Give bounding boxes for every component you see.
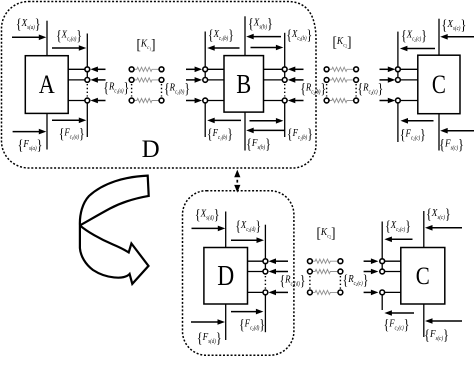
region D dashed boundary (top) xyxy=(2,2,317,169)
wire A coupling line dotted continuation xyxy=(86,84,88,97)
svg-text:A: A xyxy=(39,70,55,99)
spring K_c2 top row 1 xyxy=(329,67,355,71)
arrow reaction R_c2(c) row 2 into C left node xyxy=(380,77,396,83)
arrow reaction R_c1(a) row 3 into A node xyxy=(90,98,105,104)
wire B right coupling line lower xyxy=(284,99,286,138)
curved swoosh arrow (condensation) xyxy=(80,176,149,284)
wire D bottom s-line xyxy=(225,304,227,340)
arrow {F_s(c)} into bottom C bottom boundary line xyxy=(425,318,462,324)
wire stubs D right to coupling nodes xyxy=(248,261,265,292)
arrow {F_c2(b)} into B right coupling line bottom xyxy=(250,118,284,124)
wire bottom C top s-line xyxy=(423,211,425,248)
wire B left coupling line lower xyxy=(204,99,206,138)
arrow {X_s(a)} into A top boundary line xyxy=(12,35,46,41)
arrow {F_c2(d)} into D coupling line bottom xyxy=(231,309,263,315)
wire C top s-line xyxy=(438,19,440,56)
wire C left coupling line upper xyxy=(397,32,399,82)
svg-text:D: D xyxy=(217,261,234,292)
coupling nodes on B right boundary xyxy=(282,67,287,103)
wire stubs B right to coupling nodes xyxy=(264,69,284,100)
wire A coupling line lower xyxy=(86,99,88,138)
wire B right coupling line dotted continuation xyxy=(284,84,286,97)
wire B left coupling line upper xyxy=(204,32,206,83)
spring K_c1 left end nodes xyxy=(129,67,134,103)
arrow {F_c2(c)} into C coupling line bottom xyxy=(401,118,434,124)
arrow {X_s(c)} into C top boundary line xyxy=(440,34,474,40)
dots spring K_c2 bottom left column xyxy=(309,276,311,289)
arrow reaction R_c2(d) row 3 into D node xyxy=(269,290,289,296)
spring K_c2 right end nodes (top) xyxy=(354,67,359,103)
arrow reaction R_c2(c) row 3 into C left node xyxy=(380,98,396,104)
arrow {F_c1(b)} into B left coupling line bottom xyxy=(207,118,241,124)
arrow reaction R_c2(b) row 2 into B right node xyxy=(288,77,304,83)
arrow {X_c2(c)} into bottom C coupling line xyxy=(384,237,412,243)
wire B right coupling line upper xyxy=(284,33,286,82)
wire A top s-line xyxy=(46,21,48,56)
arrow reaction R_c1(b) row 2 into B left node xyxy=(186,77,202,83)
arrow reaction R_c2(c) row 1 into C left node xyxy=(380,67,396,73)
wire stubs A right to coupling nodes xyxy=(68,69,86,100)
double-headed dashed arrow linking regions xyxy=(234,170,240,193)
arrow {F_c2(c)} into bottom C coupling line bottom xyxy=(384,310,414,316)
wire D coupling line lower xyxy=(264,291,266,333)
arrow {F_s(c)} into C bottom boundary line xyxy=(440,128,474,134)
svg-text:D: D xyxy=(142,136,160,163)
arrow reaction R_c1(b) row 3 into B left node xyxy=(186,98,202,104)
spring K_c1 row 3 xyxy=(134,98,160,102)
arrow {X_s(b)} into B top boundary line xyxy=(246,34,281,40)
wire stubs bottom C left to coupling nodes xyxy=(384,261,401,292)
dots spring K_c1 right column xyxy=(161,84,163,97)
wire C bottom s-line xyxy=(438,114,440,151)
spring K_c2 bottom row 2 xyxy=(312,269,339,273)
arrow {F_s(d)} into D bottom boundary line xyxy=(191,319,225,325)
wire stubs C left to coupling nodes xyxy=(399,69,418,100)
arrow reaction R_c2(b) row 1 into B right node xyxy=(288,67,304,73)
coupling nodes on B left boundary xyxy=(203,67,208,103)
arrow reaction R_c2(c) row 3 into bottom C node xyxy=(364,290,379,296)
arrow {F_s(a)} into A bottom boundary line xyxy=(13,129,47,135)
wire bottom C bottom s-line xyxy=(423,304,425,337)
arrow reaction R_c1(a) row 2 into A node xyxy=(90,77,105,83)
block C (substructure C, bottom) xyxy=(401,248,445,305)
wire bottom C left coupling line lower xyxy=(381,291,383,311)
arrow {X_c1(b)} into B left coupling line xyxy=(207,45,239,51)
wire D coupling line dotted continuation xyxy=(264,276,266,289)
spring K_c2 left end nodes (top) xyxy=(324,67,329,103)
block B (substructure B) xyxy=(224,56,264,113)
arrow reaction R_c2(c) row 1 into bottom C node xyxy=(364,258,379,264)
condensed region dashed boundary (bottom) xyxy=(183,191,294,356)
spring K_c2 bottom row 3 xyxy=(312,290,339,294)
spring K_c1 row 2 xyxy=(134,78,160,82)
arrow {F_s(b)} into B bottom boundary line xyxy=(246,128,285,134)
arrow reaction R_c1(a) row 1 into A node xyxy=(90,67,105,73)
coupling nodes on D right boundary xyxy=(263,259,268,295)
arrow reaction R_c2(c) row 2 into bottom C node xyxy=(364,269,379,275)
wire D coupling line upper xyxy=(264,225,266,274)
arrow reaction R_c2(b) row 3 into B right node xyxy=(288,98,304,104)
coupling nodes on bottom C left boundary xyxy=(380,259,385,295)
wire A bottom s-line xyxy=(46,113,48,149)
arrow {F_c1(a)} into A coupling line bottom xyxy=(52,118,86,124)
spring K_c2 right end nodes (bottom) xyxy=(338,259,343,295)
wire C left coupling line lower xyxy=(397,99,399,143)
block A (substructure A) xyxy=(25,56,68,114)
block D (superelement D) xyxy=(204,248,248,305)
svg-text:C: C xyxy=(416,263,430,290)
arrow reaction R_c2(d) row 1 into D node xyxy=(269,258,289,264)
wire stubs B left to coupling nodes xyxy=(207,69,225,100)
arrow reaction R_c1(b) row 1 into B left node xyxy=(186,67,202,73)
dots spring K_c2 right column xyxy=(355,84,357,97)
coupling nodes on A right boundary xyxy=(85,67,90,103)
spring K_c1 right end nodes xyxy=(159,67,164,103)
spring K_c2 top row 2 xyxy=(329,78,355,82)
arrow {X_c2(b)} into B right coupling line xyxy=(251,45,284,51)
arrow reaction R_c2(d) row 2 into D node xyxy=(269,269,289,275)
wire D top s-line xyxy=(225,212,227,248)
wire A coupling line upper xyxy=(86,34,88,83)
arrow {X_c1(a)} into A coupling line xyxy=(52,45,86,51)
arrow {X_c2(c)} into C left coupling line xyxy=(400,46,435,52)
wire bottom C left coupling line upper xyxy=(381,222,383,274)
arrow {X_c2(d)} into D coupling line xyxy=(231,237,264,243)
arrow {X_s(d)} into D top boundary line xyxy=(192,226,226,232)
spring K_c1 row 1 xyxy=(134,67,160,71)
arrow {X_s(c)} into bottom C top boundary line xyxy=(425,225,462,231)
block C (substructure C, top) xyxy=(418,55,460,113)
svg-text:B: B xyxy=(236,69,251,99)
spring K_c2 bottom row 1 xyxy=(312,259,339,263)
wire B bottom s-line xyxy=(244,112,246,150)
spring K_c2 left end nodes (bottom) xyxy=(308,259,313,295)
dots spring K_c1 left column xyxy=(131,84,133,97)
spring K_c2 top row 3 xyxy=(329,98,355,102)
wire B top s-line xyxy=(244,16,246,55)
dots spring K_c2 bottom right column xyxy=(339,276,341,289)
coupling nodes on C left boundary (top) xyxy=(396,67,401,103)
dots spring K_c2 left column xyxy=(326,84,328,97)
svg-text:C: C xyxy=(432,70,446,99)
